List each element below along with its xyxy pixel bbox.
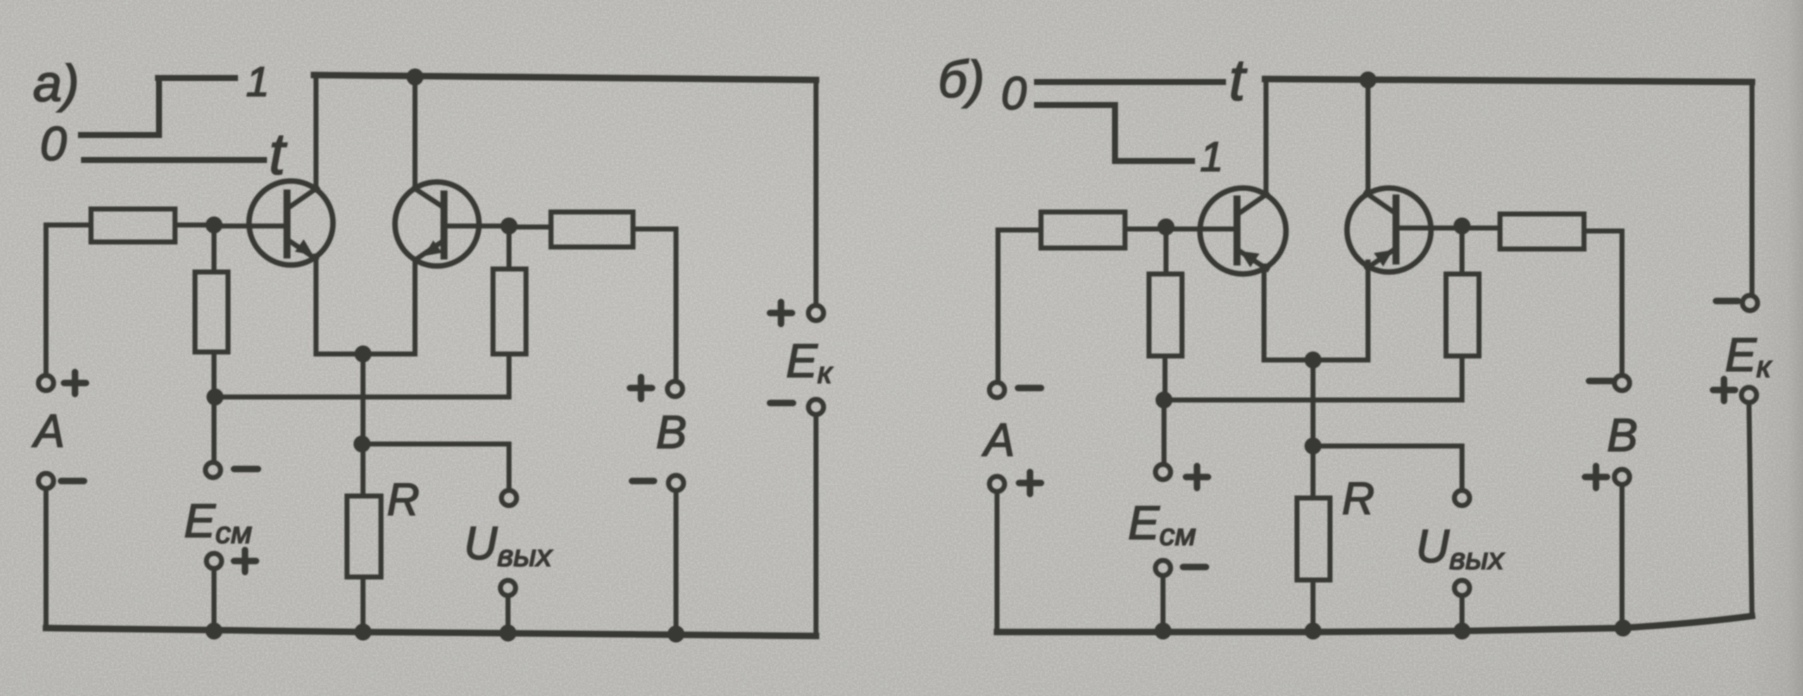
terminal Ek plus a [808,305,823,320]
resistor R8 (input B b) [1462,214,1622,249]
node emitter join b [1305,352,1322,369]
wire emitter join b [1264,358,1368,363]
transistor T4 [1347,188,1431,272]
svg-text:R: R [1342,473,1375,524]
svg-text:B: B [656,406,687,458]
node Ecm tap b [1156,392,1173,409]
terminal A plus b [989,476,1004,491]
node emitter join a [355,346,372,363]
resistor R emitter b [1297,498,1330,580]
wire T4 base lead [1396,226,1462,231]
terminal Ecm minus b [1155,560,1170,575]
wire Ecm a lower [212,570,217,631]
svg-text:B: B [1607,409,1638,461]
resistor R4 (input B) [509,212,676,247]
wire input A vertical bottom [44,490,49,628]
wire top rail a [314,75,816,80]
terminal Ek minus b [1742,295,1757,310]
resistor R3 (base divider T2) [493,226,526,397]
wire Ek vertical bottom b [1749,404,1752,616]
wire emitter to rail a [361,354,366,632]
wire Ek vertical bottom a [814,416,819,636]
plus sign B [630,377,652,399]
wire Ecm b lower [1161,577,1166,632]
wire emitter join a [316,352,415,357]
node Uvyh rail b [1454,623,1471,640]
wire T2 emitter [413,259,418,354]
wire T2 collector [413,77,418,189]
node T4 collector on rail [1360,72,1377,89]
node Ecm tap a [207,389,224,406]
waveform a: level-1 line [158,75,235,81]
minus sign B b [1589,378,1612,385]
minus sign A [61,478,84,485]
node Uvyh tap b [1305,438,1322,455]
minus sign A b [1018,385,1041,392]
plus sign A [64,372,86,394]
svg-text:а): а) [33,55,79,113]
resistor R6 (base divider T3) [1149,229,1182,400]
resistor R1 (input A) [46,209,214,242]
plus sign Ek b [1713,379,1735,401]
wire T1 base lead [214,224,285,229]
terminal A minus b [989,382,1004,397]
terminal Ecm plus a [206,553,221,568]
svg-text:0: 0 [1001,67,1027,119]
node Uvyh tap a [354,436,371,453]
waveform a: t axis [84,157,264,163]
node Ecm rail b [1155,623,1172,640]
node Ecm rail a [206,623,223,640]
wire input B b vertical top [1620,231,1625,375]
terminal Ek minus a [808,399,823,414]
terminal A plus [38,375,53,390]
wire Uvyh tap b [1313,446,1462,489]
node R rail b [1305,623,1322,640]
waveform b: step edge [1112,105,1118,161]
wire Ek vertical top a [814,80,819,305]
node T2 base [501,218,518,235]
terminal B plus [667,381,682,396]
svg-text:1: 1 [246,58,269,105]
terminal Uvyh top b [1454,490,1469,505]
svg-text:A: A [31,405,65,457]
wire Ecm b upper [1162,400,1167,464]
wire input B vertical top [674,229,679,381]
wire input A b vertical top [996,230,1001,382]
waveform a: step edge [156,78,162,135]
wire emitter to rail b [1311,360,1316,631]
resistor R5 (input A b) [998,212,1166,248]
wire T4 collector [1366,80,1371,192]
wire T3 collector [1264,79,1269,195]
svg-text:R: R [387,474,420,525]
terminal Uvyh top a [501,490,516,505]
wire Uvyh bottom a [506,597,511,633]
transistor T2 [395,182,479,266]
wire top rail b [1265,79,1752,82]
waveform b: level-0 line [1037,102,1115,108]
terminal Uvyh bottom b [1454,580,1469,595]
wire base-resistor bottoms b [1164,398,1462,403]
wire Ecm a upper [212,397,217,462]
terminal Ecm minus a [205,462,220,477]
wire T2 base lead [444,224,509,229]
plus sign Ecm b [1186,466,1208,488]
terminal Ek plus b [1741,387,1756,402]
wire bottom rail a [46,628,816,636]
minus sign B [632,478,654,485]
node T4 base [1454,218,1471,235]
waveform a: level-0 line [81,132,159,138]
svg-text:A: A [981,414,1015,466]
terminal B minus [668,475,683,490]
wire Uvyh bottom b [1460,597,1465,631]
node Uvyh rail a [500,625,517,642]
resistor R2 (base divider T1) [195,225,228,396]
terminal B plus b [1614,469,1629,484]
minus sign Ecm b [1183,564,1206,571]
waveform b: level-1 line [1115,158,1192,164]
wire input B b vertical bottom [1620,486,1625,628]
terminal B minus b [1614,375,1629,390]
minus sign Ek b [1716,298,1738,305]
wire input A b vertical bottom [995,493,1000,632]
wire Ek vertical top b [1750,82,1755,295]
plus sign A b [1019,472,1041,494]
terminal Uvyh bottom a [500,580,515,595]
node B rail a [668,626,685,643]
svg-text:б): б) [938,51,985,109]
resistor R emitter a [347,496,381,577]
wire input B vertical bottom [674,492,679,634]
wire T3 emitter [1262,266,1267,360]
svg-text:1: 1 [1200,133,1223,180]
terminal A minus [38,473,53,488]
plus sign Ecm a [234,550,256,572]
waveform b: t axis [1037,79,1223,85]
wire T1 collector [314,75,319,190]
node R rail a [355,624,372,641]
wire T3 base lead [1166,227,1234,232]
wire Uvyh tap a [362,444,509,489]
plus sign Ek a [770,302,792,324]
resistor R7 (base divider T4) [1446,228,1479,400]
terminal Ecm plus b [1155,464,1170,479]
plus sign B b [1585,466,1607,488]
node T1 base [206,217,223,234]
transistor T1 [249,181,333,265]
node T2 collector on rail [407,69,424,86]
wire T4 emitter [1366,262,1371,360]
minus sign Ecm a [234,466,258,473]
wire bottom rail b [997,616,1752,632]
wire input A vertical top [44,225,49,375]
transistor T3 [1200,188,1286,274]
wire base-resistor bottoms a [215,395,509,400]
svg-text:0: 0 [40,118,67,171]
minus sign Ek a [770,400,793,407]
wire T1 emitter [314,256,319,354]
node B rail b [1615,620,1632,637]
node T3 base [1158,219,1175,236]
